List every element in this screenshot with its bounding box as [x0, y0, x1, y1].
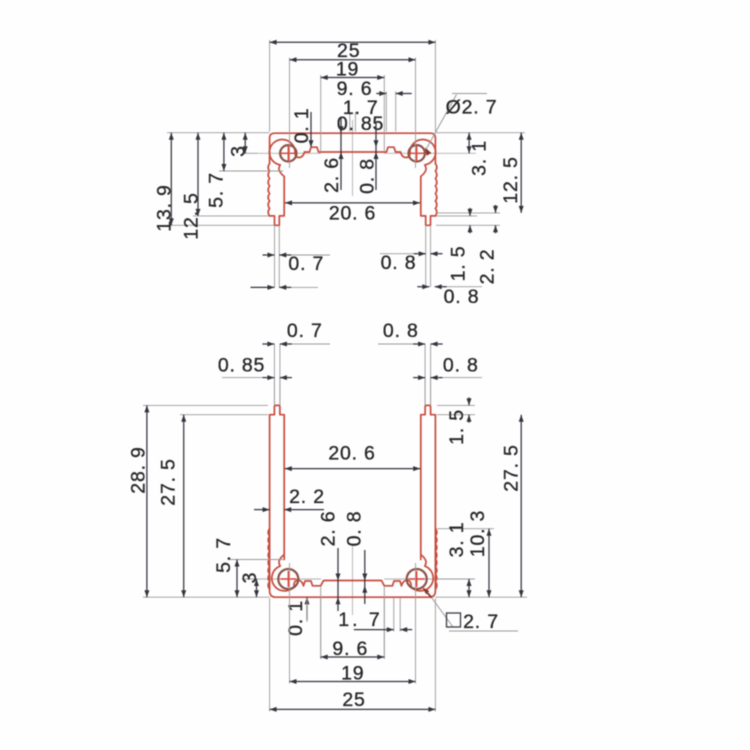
svg-text:0. 7: 0. 7	[287, 320, 323, 342]
top view left boss hole circle	[280, 145, 296, 161]
dimension 3 left bottom view	[256, 579, 258, 597]
right extension lines bottom view	[437, 404, 475, 406]
dimension 0.8 bottom view right	[424, 378, 426, 406]
top view left serrated edge	[268, 164, 269, 216]
svg-text:Ø2. 7: Ø2. 7	[446, 97, 498, 119]
dimension 0.8 right leg lower	[417, 286, 429, 288]
svg-text:0. 8: 0. 8	[343, 511, 365, 547]
svg-text:2. 6: 2. 6	[317, 511, 339, 547]
bottom view right serrated edge	[435, 529, 436, 589]
svg-text:5. 7: 5. 7	[213, 537, 235, 573]
dimension 1.7 bottom	[354, 629, 394, 631]
dimension 13.9 left top view	[170, 133, 172, 226]
left extension lines bottom view	[143, 404, 268, 406]
svg-text:0. 8: 0. 8	[356, 158, 378, 194]
dimension 0.7 bottom view	[262, 343, 274, 345]
bottom view vertical centerline	[352, 545, 354, 615]
svg-text:0. 1: 0. 1	[291, 108, 313, 144]
svg-text:2. 6: 2. 6	[321, 157, 343, 193]
svg-text:19: 19	[341, 662, 364, 684]
svg-text:3: 3	[239, 572, 261, 584]
leader line square 2.7	[432, 598, 454, 628]
dimension 1.7 top	[376, 93, 386, 95]
svg-text:12. 5: 12. 5	[180, 192, 202, 239]
bottom view inner floor with raised center	[304, 581, 402, 586]
svg-text:9. 6: 9. 6	[332, 638, 368, 660]
svg-text:3: 3	[227, 145, 249, 157]
svg-text:27. 5: 27. 5	[500, 444, 522, 491]
right leg extension wires	[425, 225, 427, 287]
top view right boss centerline	[384, 152, 476, 154]
svg-text:0. 85: 0. 85	[337, 113, 384, 135]
dimension 19 bottom	[290, 681, 416, 683]
dimension 5.7 left bottom view	[236, 560, 238, 598]
top view left boss collar	[269, 139, 304, 176]
top view right boss hole circle	[409, 145, 425, 161]
dimension 3.1 right top view	[468, 133, 470, 154]
top view right boss center cross	[409, 152, 425, 154]
dimension 0.8 bottom view upper	[413, 343, 425, 345]
dimension 2.6 bottom view	[337, 548, 339, 611]
svg-text:0. 8: 0. 8	[383, 320, 419, 342]
extension lines bottom chain	[269, 598, 271, 711]
bottom view tongue extension wires right	[424, 344, 426, 405]
dimension 1.5 right top view	[469, 208, 471, 216]
svg-text:0. 8: 0. 8	[381, 252, 417, 274]
dimension 19 top	[290, 59, 416, 61]
svg-text:5. 7: 5. 7	[205, 172, 227, 208]
svg-text:0. 1: 0. 1	[285, 600, 307, 636]
svg-text:28. 9: 28. 9	[127, 446, 149, 493]
dimension 0.8 top vertical	[375, 122, 377, 190]
dimension 0.8 bottom view middle	[364, 550, 366, 604]
svg-text:3. 1: 3. 1	[446, 522, 468, 558]
top view right serrated edge	[435, 164, 436, 216]
dimension 0.85 bottom view	[273, 378, 275, 406]
svg-text:3. 1: 3. 1	[468, 140, 490, 176]
bottom view boss centerlines	[256, 578, 321, 580]
svg-text:2. 2: 2. 2	[289, 486, 325, 508]
dimension 25 bottom	[270, 708, 436, 710]
label square 2.7	[447, 613, 461, 627]
svg-text:12. 5: 12. 5	[500, 156, 522, 203]
svg-text:0. 8: 0. 8	[443, 355, 479, 377]
dimension 1.5 right bottom view	[468, 397, 470, 405]
svg-text:13. 9: 13. 9	[153, 184, 175, 231]
dimension 12.5 left top view	[197, 133, 199, 216]
dimension 2.2 right top view	[495, 205, 497, 213]
dimension 25 top	[270, 41, 436, 43]
svg-text:20. 6: 20. 6	[328, 443, 375, 465]
top view left boss center cross	[280, 152, 296, 154]
leader line diameter 2.7	[427, 95, 457, 149]
bottom view left boss cross	[280, 578, 296, 580]
bottom view left boss hole circle	[278, 569, 298, 589]
svg-text:20. 6: 20. 6	[329, 203, 376, 225]
bottom view right boss hole circle	[407, 569, 427, 589]
svg-text:2. 2: 2. 2	[476, 249, 498, 285]
bottom view left serrated edge	[268, 529, 269, 589]
bottom view right boss collar	[402, 555, 434, 591]
top view vertical centerline	[352, 120, 354, 196]
dimension 3.1 right bottom view	[468, 579, 470, 597]
top view inner ceiling with bumps	[305, 147, 401, 152]
bottom view right boss cross	[409, 578, 425, 580]
dimension 2.6 top vertical	[340, 117, 342, 190]
dimension 20.6 top	[285, 202, 420, 204]
svg-text:0. 7: 0. 7	[288, 253, 324, 275]
dimension 0.7 left leg	[263, 254, 275, 256]
svg-text:1. 5: 1. 5	[446, 409, 468, 445]
dimension 3 left top view	[244, 133, 246, 154]
right extension lines top view	[435, 132, 525, 134]
svg-text:0. 8: 0. 8	[444, 286, 480, 308]
top view cap profile outline	[270, 133, 436, 163]
dimension 28.9 left bottom view	[146, 405, 148, 597]
dimension 10.3 right bottom view	[488, 529, 490, 598]
top view left boss centerline	[256, 152, 321, 154]
dimension 27.5 left bottom view	[183, 415, 185, 598]
dimension 9.6 bottom	[321, 656, 385, 658]
dimension 5.7 left top view	[223, 133, 225, 171]
dimension 20.6 bottom view	[285, 468, 420, 470]
extension lines top chain	[269, 40, 271, 132]
svg-text:27. 5: 27. 5	[157, 458, 179, 505]
svg-text:0. 85: 0. 85	[218, 355, 265, 377]
svg-text:1. 7: 1. 7	[338, 609, 383, 631]
svg-text:10. 3: 10. 3	[467, 510, 489, 557]
dimension 12.5 right top view	[520, 133, 522, 213]
bottom view right wall and tongue	[421, 405, 436, 559]
bottom view left wall and tongue	[270, 405, 285, 559]
svg-text:2. 7: 2. 7	[463, 611, 499, 633]
top view right boss collar	[401, 139, 436, 176]
svg-text:1. 5: 1. 5	[447, 246, 469, 282]
dimension 0.8 right leg upper	[414, 253, 426, 255]
left leg extension wires	[274, 225, 276, 287]
dimension 9.6 top	[321, 77, 385, 79]
bottom view left boss collar	[272, 555, 304, 591]
bottom view tongue extension wires left	[273, 344, 275, 405]
dimension 2.2 bottom view	[254, 509, 270, 511]
dimension 0.1 bottom view	[306, 597, 308, 620]
svg-text:25: 25	[342, 689, 365, 711]
dimension 0.1 top with arrow	[310, 112, 312, 147]
bottom view channel profile outline	[270, 529, 436, 598]
lower left leg dimension line	[251, 286, 275, 288]
dimension 27.5 right bottom view	[520, 415, 522, 598]
top view right leg and foot	[421, 177, 436, 226]
left extension lines top view	[167, 132, 270, 134]
top view left leg and foot	[270, 177, 285, 226]
